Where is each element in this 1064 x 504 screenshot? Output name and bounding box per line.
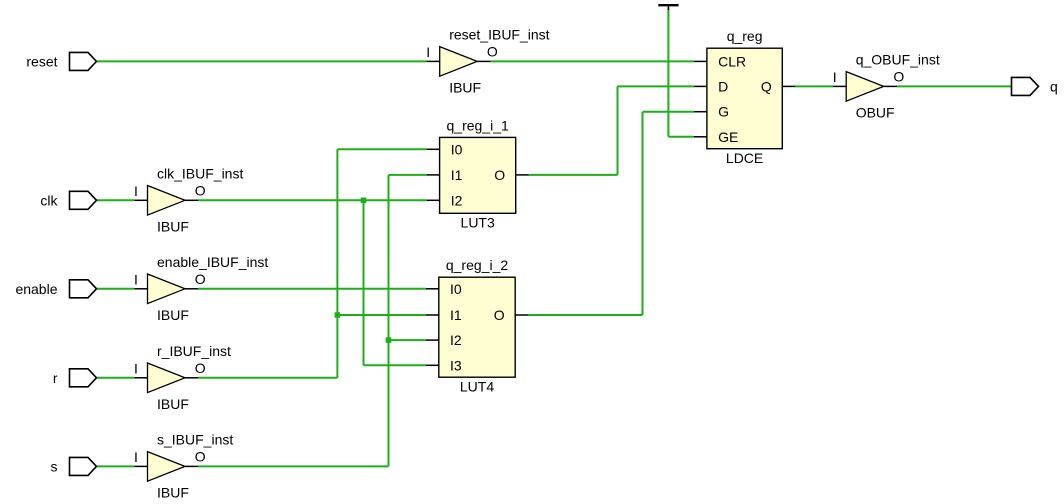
svg-text:q: q (1050, 78, 1058, 94)
svg-text:reset_IBUF_inst: reset_IBUF_inst (449, 26, 549, 42)
svg-text:IBUF: IBUF (449, 79, 481, 95)
svg-text:O: O (494, 167, 505, 183)
svg-text:I: I (833, 69, 837, 85)
svg-text:I0: I0 (451, 141, 463, 157)
svg-text:LDCE: LDCE (726, 150, 763, 166)
svg-text:O: O (195, 182, 206, 198)
svg-text:enable: enable (15, 281, 57, 297)
svg-text:I: I (134, 449, 138, 465)
svg-text:O: O (195, 360, 206, 376)
svg-text:O: O (195, 271, 206, 287)
svg-text:IBUF: IBUF (157, 307, 189, 323)
svg-text:I1: I1 (451, 167, 463, 183)
svg-text:D: D (718, 78, 728, 94)
svg-text:GE: GE (718, 129, 738, 145)
svg-text:CLR: CLR (718, 53, 746, 69)
svg-text:IBUF: IBUF (157, 484, 189, 500)
svg-text:LUT3: LUT3 (461, 215, 495, 231)
svg-text:OBUF: OBUF (856, 104, 895, 120)
svg-text:I2: I2 (450, 332, 462, 348)
svg-text:I1: I1 (450, 307, 462, 323)
svg-text:I3: I3 (450, 357, 462, 373)
svg-text:IBUF: IBUF (157, 396, 189, 412)
svg-text:O: O (487, 43, 498, 59)
svg-text:r: r (53, 370, 58, 386)
svg-text:clk: clk (40, 192, 58, 208)
svg-text:I: I (426, 44, 430, 60)
svg-text:clk_IBUF_inst: clk_IBUF_inst (157, 165, 243, 181)
svg-text:I: I (134, 183, 138, 199)
svg-text:I2: I2 (451, 192, 463, 208)
svg-text:LUT4: LUT4 (460, 379, 494, 395)
svg-text:q_OBUF_inst: q_OBUF_inst (856, 51, 940, 67)
svg-text:IBUF: IBUF (157, 218, 189, 234)
svg-text:O: O (494, 307, 505, 323)
svg-text:O: O (195, 448, 206, 464)
svg-text:G: G (718, 104, 729, 120)
svg-text:enable_IBUF_inst: enable_IBUF_inst (157, 254, 268, 270)
svg-text:s_IBUF_inst: s_IBUF_inst (157, 431, 233, 447)
svg-text:q_reg: q_reg (727, 28, 763, 44)
svg-text:q_reg_i_1: q_reg_i_1 (447, 117, 509, 133)
svg-text:Q: Q (761, 78, 772, 94)
svg-text:r_IBUF_inst: r_IBUF_inst (157, 343, 231, 359)
svg-text:s: s (51, 458, 58, 474)
svg-text:I0: I0 (450, 281, 462, 297)
svg-text:q_reg_i_2: q_reg_i_2 (446, 257, 508, 273)
svg-text:reset: reset (26, 53, 57, 69)
svg-text:O: O (893, 68, 904, 84)
svg-text:I: I (134, 360, 138, 376)
svg-text:I: I (134, 271, 138, 287)
